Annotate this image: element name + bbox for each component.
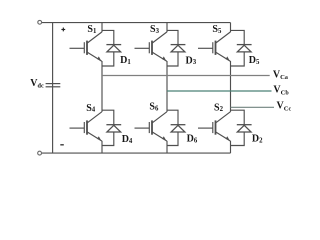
transistor S2 gate lead <box>198 127 213 129</box>
capacitor C plate 1 <box>46 83 61 85</box>
transistor S1 gate bar <box>83 42 85 53</box>
wire emitter stub S4 <box>101 141 103 153</box>
svg-text:S1: S1 <box>87 24 97 35</box>
transistor S4 gate bar <box>83 122 85 133</box>
diode D1 triangle <box>107 45 121 52</box>
wire top DC bus <box>42 22 231 24</box>
wire diode branch D5 <box>231 30 245 44</box>
label plus polarity <box>61 28 65 32</box>
diode D6 cathode bar <box>171 124 186 126</box>
wire diode anode return D4 <box>102 132 114 146</box>
transistor S3 gate lead <box>135 47 150 49</box>
wire diode branch D1 <box>102 30 114 44</box>
transistor S3 gate bar <box>148 42 150 53</box>
transistor S2 gate bar <box>212 122 214 133</box>
transistor S2 body bar <box>215 120 217 134</box>
svg-text:D3: D3 <box>186 55 197 66</box>
wire midpoint leg phase 3 <box>230 61 232 112</box>
wire emitter stub S2 <box>230 141 232 153</box>
diode D2 triangle <box>237 125 251 132</box>
transistor S4 emitter lead <box>87 132 102 141</box>
transistor S6 emitter lead <box>152 132 167 141</box>
transistor S4 body bar <box>86 120 88 134</box>
wire collector stub S3 <box>166 23 168 33</box>
transistor S5 gate bar <box>212 42 214 53</box>
wire diode branch D4 <box>102 110 114 125</box>
svg-text:Vdc: Vdc <box>30 78 44 90</box>
transistor S6 gate bar <box>148 122 150 133</box>
svg-text:D2: D2 <box>252 134 263 145</box>
wire diode branch D2 <box>231 110 245 125</box>
diode D6 triangle <box>171 125 185 132</box>
transistor S3 body bar <box>151 41 153 55</box>
transistor S1 body bar <box>86 41 88 55</box>
wire diode branch D3 <box>167 30 178 44</box>
wire midpoint leg phase 2 <box>166 61 168 112</box>
transistor S2 collector lead <box>216 112 231 123</box>
svg-text:D1: D1 <box>120 55 131 66</box>
svg-text:S4: S4 <box>86 103 96 114</box>
diode D5 triangle <box>237 45 251 52</box>
transistor S3 emitter arrow <box>162 56 166 61</box>
diode D4 triangle <box>107 125 121 132</box>
diode D1 cathode bar <box>106 44 121 46</box>
transistor S4 collector lead <box>87 112 102 123</box>
transistor S5 emitter arrow <box>226 56 230 61</box>
svg-text:D5: D5 <box>249 55 260 66</box>
diode D3 triangle <box>171 45 185 52</box>
svg-text:VCa: VCa <box>273 69 288 81</box>
wire phase output Vb <box>167 90 272 92</box>
wire diode anode return D3 <box>167 52 178 66</box>
wire diode branch D6 <box>167 110 178 125</box>
wire diode anode return D6 <box>167 132 178 146</box>
wire left DC-link rail <box>52 23 54 154</box>
transistor S1 collector lead <box>87 32 102 43</box>
svg-text:S3: S3 <box>150 24 160 35</box>
transistor S5 gate lead <box>198 47 213 49</box>
diode D5 cathode bar <box>237 44 252 46</box>
wire phase output Vc <box>231 106 275 108</box>
capacitor C plate 2 <box>46 86 61 88</box>
wire emitter stub S6 <box>166 141 168 153</box>
svg-text:VCb: VCb <box>273 85 289 97</box>
svg-text:D6: D6 <box>187 134 198 145</box>
transistor S3 collector lead <box>152 32 167 43</box>
svg-text:VCc: VCc <box>277 101 292 113</box>
transistor S6 collector lead <box>152 112 167 123</box>
diode D2 cathode bar <box>237 124 252 126</box>
wire diode anode return D2 <box>231 132 245 146</box>
transistor S6 emitter arrow <box>162 136 166 141</box>
label minus polarity <box>60 144 64 145</box>
svg-text:S2: S2 <box>214 102 224 113</box>
transistor S6 body bar <box>151 120 153 134</box>
wire bottom DC bus <box>42 152 231 154</box>
transistor S5 collector lead <box>216 32 231 43</box>
wire collector stub S5 <box>230 23 232 33</box>
transistor S6 gate lead <box>135 127 150 129</box>
wire phase output Va <box>102 75 270 77</box>
transistor S3 emitter lead <box>152 52 167 61</box>
wire midpoint leg phase 1 <box>101 61 103 112</box>
svg-text:S6: S6 <box>149 102 159 113</box>
transistor S1 gate lead <box>70 47 85 49</box>
svg-text:S5: S5 <box>212 24 222 35</box>
wire diode anode return D1 <box>102 52 114 66</box>
diode D3 cathode bar <box>171 44 186 46</box>
transistor S5 emitter lead <box>216 52 231 61</box>
diode D4 cathode bar <box>106 124 121 126</box>
transistor S2 emitter lead <box>216 132 231 141</box>
negative DC input terminal <box>38 151 42 155</box>
wire collector stub S1 <box>101 23 103 33</box>
transistor S2 emitter arrow <box>226 136 230 141</box>
transistor S1 emitter lead <box>87 52 102 61</box>
transistor S1 emitter arrow <box>97 56 101 61</box>
svg-text:D4: D4 <box>122 134 133 145</box>
transistor S5 body bar <box>215 41 217 55</box>
transistor S4 gate lead <box>70 127 85 129</box>
positive DC input terminal <box>38 20 42 24</box>
transistor S4 emitter arrow <box>97 136 101 141</box>
wire diode anode return D5 <box>231 52 245 66</box>
